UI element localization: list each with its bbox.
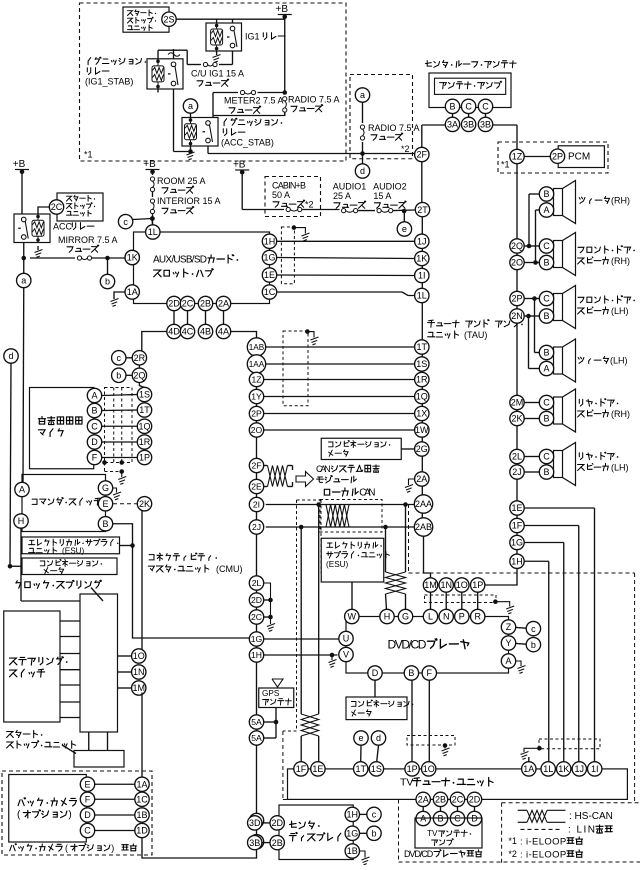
- svg-text:2L: 2L: [512, 452, 522, 462]
- svg-text:+B: +B: [233, 160, 246, 171]
- svg-text:1H: 1H: [511, 556, 523, 566]
- svg-text:(LH): (LH): [611, 306, 629, 316]
- svg-text:*2: *2: [305, 199, 314, 209]
- svg-text:DVD/CD: DVD/CD: [388, 637, 427, 651]
- svg-text:c: c: [372, 810, 377, 820]
- svg-text:1M: 1M: [132, 683, 145, 693]
- svg-text:1A: 1A: [523, 764, 534, 774]
- svg-text:(TAU): (TAU): [464, 330, 487, 340]
- svg-text:2A: 2A: [418, 795, 429, 805]
- svg-text:1J: 1J: [417, 237, 427, 247]
- svg-text:+B: +B: [143, 159, 156, 170]
- svg-text:2S: 2S: [163, 14, 174, 24]
- svg-text:2G: 2G: [416, 444, 428, 454]
- svg-text:1B: 1B: [347, 846, 358, 856]
- svg-text:a: a: [21, 276, 26, 286]
- svg-text:2O: 2O: [251, 425, 263, 435]
- svg-text:2B: 2B: [435, 795, 446, 805]
- svg-text:B: B: [543, 467, 549, 477]
- svg-text:1D: 1D: [136, 826, 148, 836]
- svg-text:1K: 1K: [127, 253, 138, 263]
- svg-text:b: b: [105, 277, 110, 287]
- svg-text:B: B: [543, 189, 549, 199]
- svg-text:1R: 1R: [416, 375, 428, 385]
- svg-text:2O: 2O: [511, 258, 523, 268]
- svg-text:1R: 1R: [139, 437, 151, 447]
- svg-text:2N: 2N: [511, 311, 523, 321]
- svg-text:2D: 2D: [168, 299, 180, 309]
- svg-text:(IG1_STAB): (IG1_STAB): [85, 76, 133, 86]
- svg-text:3B: 3B: [463, 120, 474, 130]
- svg-text:(RH): (RH): [611, 195, 630, 205]
- svg-text:1H: 1H: [347, 810, 359, 820]
- svg-text:B: B: [543, 258, 549, 268]
- svg-text:1Z: 1Z: [512, 152, 523, 162]
- svg-text:1A: 1A: [127, 287, 138, 297]
- svg-text:3D: 3D: [249, 818, 261, 828]
- svg-text:C: C: [543, 241, 550, 251]
- svg-text:U: U: [343, 634, 350, 644]
- svg-text:F: F: [92, 453, 98, 463]
- svg-text:1K: 1K: [558, 764, 569, 774]
- svg-text:1K: 1K: [416, 254, 427, 264]
- svg-text:(ESU): (ESU): [326, 560, 349, 569]
- svg-text:2D: 2D: [469, 795, 481, 805]
- svg-text:L: L: [428, 612, 433, 622]
- svg-text:1P: 1P: [472, 580, 483, 590]
- svg-text:): ): [111, 843, 114, 853]
- svg-text:2A: 2A: [416, 474, 427, 484]
- svg-text:A: A: [91, 391, 97, 401]
- svg-text:1S: 1S: [139, 390, 150, 400]
- svg-text:*1: *1: [501, 159, 510, 169]
- svg-text:2Q: 2Q: [511, 241, 523, 251]
- svg-text:ACC: ACC: [53, 221, 73, 231]
- svg-text:1Z: 1Z: [251, 375, 261, 385]
- svg-text:*2: *2: [508, 849, 517, 859]
- svg-text:1AA: 1AA: [249, 360, 265, 369]
- svg-text:CABIN+B: CABIN+B: [272, 180, 306, 190]
- svg-text:*1: *1: [508, 836, 517, 846]
- svg-text:D: D: [471, 814, 478, 824]
- svg-text:1F: 1F: [512, 521, 523, 531]
- svg-text:B: B: [543, 414, 549, 424]
- svg-text:c: c: [123, 217, 128, 227]
- svg-text:C: C: [91, 421, 98, 431]
- svg-text:d: d: [360, 166, 365, 176]
- svg-text:1G: 1G: [346, 829, 358, 839]
- svg-text:CAN: CAN: [359, 488, 375, 499]
- svg-text:2C: 2C: [51, 202, 63, 212]
- svg-text:*1: *1: [84, 149, 93, 159]
- svg-text:(CMU): (CMU): [216, 564, 243, 574]
- svg-text:(ESU): (ESU): [62, 547, 85, 556]
- svg-text:1H: 1H: [264, 237, 276, 247]
- svg-text:3A: 3A: [447, 120, 458, 130]
- svg-text:A: A: [543, 205, 549, 215]
- svg-text:e: e: [402, 224, 407, 234]
- svg-text:D: D: [372, 668, 379, 678]
- svg-text:A: A: [420, 814, 426, 824]
- svg-text:4D: 4D: [168, 327, 180, 337]
- svg-text:*2: *2: [401, 144, 410, 154]
- svg-text:1Q: 1Q: [416, 392, 428, 402]
- svg-text:B: B: [408, 668, 414, 678]
- svg-text:2L: 2L: [252, 578, 262, 588]
- svg-text:c: c: [531, 624, 536, 634]
- svg-text:2J: 2J: [252, 522, 261, 532]
- svg-text:2R: 2R: [134, 353, 146, 363]
- svg-text:1W: 1W: [415, 425, 429, 435]
- svg-text:b: b: [371, 829, 376, 839]
- svg-text:2K: 2K: [511, 414, 522, 424]
- svg-text:1O: 1O: [423, 764, 435, 774]
- svg-text:B: B: [437, 814, 443, 824]
- svg-text:: i-ELOOP: : i-ELOOP: [520, 836, 566, 847]
- svg-text:V: V: [343, 650, 349, 660]
- svg-text:B: B: [449, 102, 455, 112]
- svg-text:1M: 1M: [424, 580, 437, 590]
- svg-text:(LH): (LH): [611, 462, 629, 472]
- svg-text:Z: Z: [506, 622, 512, 632]
- svg-text:50 A: 50 A: [272, 190, 290, 200]
- svg-text:C: C: [543, 398, 550, 408]
- svg-text:25 A: 25 A: [333, 191, 351, 201]
- svg-text:1O: 1O: [456, 580, 468, 590]
- svg-text:DVD/CD: DVD/CD: [404, 849, 434, 859]
- svg-text:e: e: [358, 733, 363, 743]
- svg-text:4B: 4B: [200, 327, 211, 337]
- svg-text:1L: 1L: [417, 291, 427, 301]
- svg-text:H: H: [384, 612, 391, 622]
- svg-text:A: A: [543, 364, 549, 374]
- svg-text:2B: 2B: [200, 299, 211, 309]
- svg-text:1Y: 1Y: [251, 392, 262, 402]
- svg-text:(: (: [65, 843, 68, 853]
- svg-text:IG1: IG1: [245, 31, 260, 41]
- svg-text:2T: 2T: [417, 205, 428, 215]
- svg-text:1E: 1E: [511, 503, 522, 513]
- svg-text:W: W: [348, 612, 357, 622]
- svg-text:TV: TV: [400, 777, 413, 789]
- svg-text:Y: Y: [505, 638, 511, 648]
- svg-text:2D: 2D: [271, 818, 283, 828]
- svg-text:1P: 1P: [139, 453, 150, 463]
- svg-text:2B: 2B: [272, 838, 283, 848]
- svg-text:2C: 2C: [251, 612, 262, 622]
- svg-text:2C: 2C: [182, 299, 194, 309]
- svg-text:2F: 2F: [417, 150, 428, 160]
- svg-text:: HS-CAN: : HS-CAN: [569, 811, 613, 822]
- svg-text:PCM: PCM: [568, 152, 590, 163]
- svg-text:AUX/USB/SD: AUX/USB/SD: [153, 255, 207, 266]
- svg-text:1N: 1N: [440, 580, 452, 590]
- svg-text:b: b: [531, 640, 536, 650]
- svg-text:AUDIO2: AUDIO2: [373, 181, 407, 191]
- svg-text:2F: 2F: [251, 461, 261, 471]
- svg-text:C: C: [454, 814, 461, 824]
- svg-text:2K: 2K: [139, 499, 150, 509]
- svg-text:D: D: [91, 437, 98, 447]
- svg-text:1S: 1S: [416, 359, 427, 369]
- svg-text:2P: 2P: [251, 409, 262, 419]
- svg-text:MIRROR 7.5 A: MIRROR 7.5 A: [58, 235, 118, 245]
- svg-text:1O: 1O: [133, 651, 145, 661]
- svg-text:2A: 2A: [218, 299, 229, 309]
- svg-text:+B: +B: [275, 4, 288, 15]
- svg-text:3B: 3B: [480, 120, 491, 130]
- svg-text:F: F: [427, 668, 433, 678]
- svg-text:B: B: [543, 311, 549, 321]
- svg-text:1L: 1L: [543, 764, 553, 774]
- svg-text:2C: 2C: [452, 795, 464, 805]
- svg-text:P: P: [459, 612, 465, 622]
- svg-text:: i-ELOOP: : i-ELOOP: [520, 849, 566, 860]
- svg-text:2D: 2D: [251, 595, 262, 605]
- svg-text:d: d: [376, 733, 381, 743]
- svg-text:G: G: [402, 612, 409, 622]
- svg-text:1N: 1N: [133, 667, 145, 677]
- svg-text:A: A: [505, 656, 511, 666]
- svg-text:B: B: [91, 406, 97, 416]
- svg-text:GPS: GPS: [262, 689, 280, 698]
- svg-text:1G: 1G: [251, 634, 263, 644]
- svg-text:A: A: [19, 485, 25, 495]
- svg-text:TV: TV: [427, 829, 438, 838]
- svg-text:1J: 1J: [575, 764, 585, 774]
- svg-text:b: b: [116, 371, 121, 381]
- svg-text:2I: 2I: [253, 500, 260, 510]
- svg-text:2Q: 2Q: [133, 371, 145, 381]
- svg-text:1Q: 1Q: [138, 421, 150, 431]
- svg-text:1AB: 1AB: [249, 343, 265, 352]
- svg-text:4A: 4A: [218, 327, 229, 337]
- svg-text:2E: 2E: [251, 482, 262, 492]
- svg-text:C: C: [84, 826, 91, 836]
- svg-text:1F: 1F: [296, 764, 307, 774]
- svg-text:2P: 2P: [552, 151, 563, 161]
- svg-text:2P: 2P: [511, 294, 522, 304]
- svg-text:1C: 1C: [264, 287, 276, 297]
- svg-text:c: c: [117, 353, 122, 363]
- svg-text:d: d: [8, 351, 13, 361]
- svg-text:RADIO 7.5 A: RADIO 7.5 A: [288, 94, 340, 104]
- svg-text:H: H: [18, 516, 25, 526]
- svg-text:E: E: [102, 499, 108, 509]
- svg-text:CAN: CAN: [316, 464, 331, 474]
- svg-text:1A: 1A: [136, 779, 147, 789]
- svg-text:1T: 1T: [417, 342, 428, 352]
- svg-text:1E: 1E: [264, 270, 275, 280]
- svg-text:1T: 1T: [355, 764, 366, 774]
- svg-text:C: C: [543, 294, 550, 304]
- svg-text:5A: 5A: [251, 717, 262, 727]
- svg-text:a: a: [188, 101, 193, 111]
- svg-text:(RH): (RH): [611, 256, 630, 266]
- svg-text:B: B: [543, 348, 549, 358]
- svg-text:15 A: 15 A: [373, 191, 391, 201]
- svg-text:ROOM 25 A: ROOM 25 A: [157, 176, 206, 186]
- svg-text:1B: 1B: [136, 810, 147, 820]
- svg-text:METER2 7.5 A: METER2 7.5 A: [224, 95, 284, 105]
- svg-text:1E: 1E: [312, 764, 323, 774]
- svg-text:1G: 1G: [511, 538, 523, 548]
- svg-text:1I: 1I: [418, 271, 426, 281]
- svg-text:F: F: [85, 794, 91, 804]
- svg-text:C: C: [543, 452, 550, 462]
- svg-text:2AA: 2AA: [415, 499, 432, 509]
- svg-text:2J: 2J: [512, 467, 522, 477]
- svg-text:a: a: [360, 90, 365, 100]
- svg-text:3B: 3B: [249, 838, 260, 848]
- svg-text:1I: 1I: [591, 764, 599, 774]
- svg-text:1S: 1S: [371, 764, 382, 774]
- svg-text:1X: 1X: [416, 409, 427, 419]
- svg-text:(LH): (LH): [610, 355, 628, 365]
- svg-text:1H: 1H: [251, 650, 262, 660]
- svg-text:2AB: 2AB: [415, 522, 432, 532]
- svg-text:B: B: [102, 519, 108, 529]
- svg-text:1P: 1P: [407, 764, 418, 774]
- svg-text:+B: +B: [13, 159, 26, 170]
- svg-text:5A: 5A: [251, 733, 262, 743]
- svg-text:D: D: [84, 810, 91, 820]
- svg-text:C: C: [465, 102, 472, 112]
- svg-text:4C: 4C: [182, 327, 194, 337]
- svg-text:C/U IG1 15 A: C/U IG1 15 A: [191, 68, 244, 78]
- svg-text:1G: 1G: [263, 253, 275, 263]
- svg-text:1L: 1L: [148, 227, 158, 237]
- svg-text:1C: 1C: [136, 794, 148, 804]
- svg-text:(RH): (RH): [611, 409, 630, 419]
- svg-text:1T: 1T: [139, 405, 150, 415]
- svg-text:2M: 2M: [511, 398, 524, 408]
- svg-text:): ): [68, 810, 71, 821]
- svg-text:RADIO 7.5 A: RADIO 7.5 A: [368, 123, 420, 133]
- svg-text:INTERIOR 15 A: INTERIOR 15 A: [157, 196, 221, 206]
- svg-text:: LIN: : LIN: [568, 825, 595, 836]
- svg-text:AUDIO1: AUDIO1: [333, 181, 367, 191]
- svg-text:(ACC_STAB): (ACC_STAB): [221, 137, 274, 147]
- svg-text:N: N: [443, 612, 450, 622]
- svg-text:E: E: [84, 779, 90, 789]
- svg-text:R: R: [474, 612, 481, 622]
- svg-text:G: G: [102, 483, 109, 493]
- svg-text:C: C: [482, 102, 489, 112]
